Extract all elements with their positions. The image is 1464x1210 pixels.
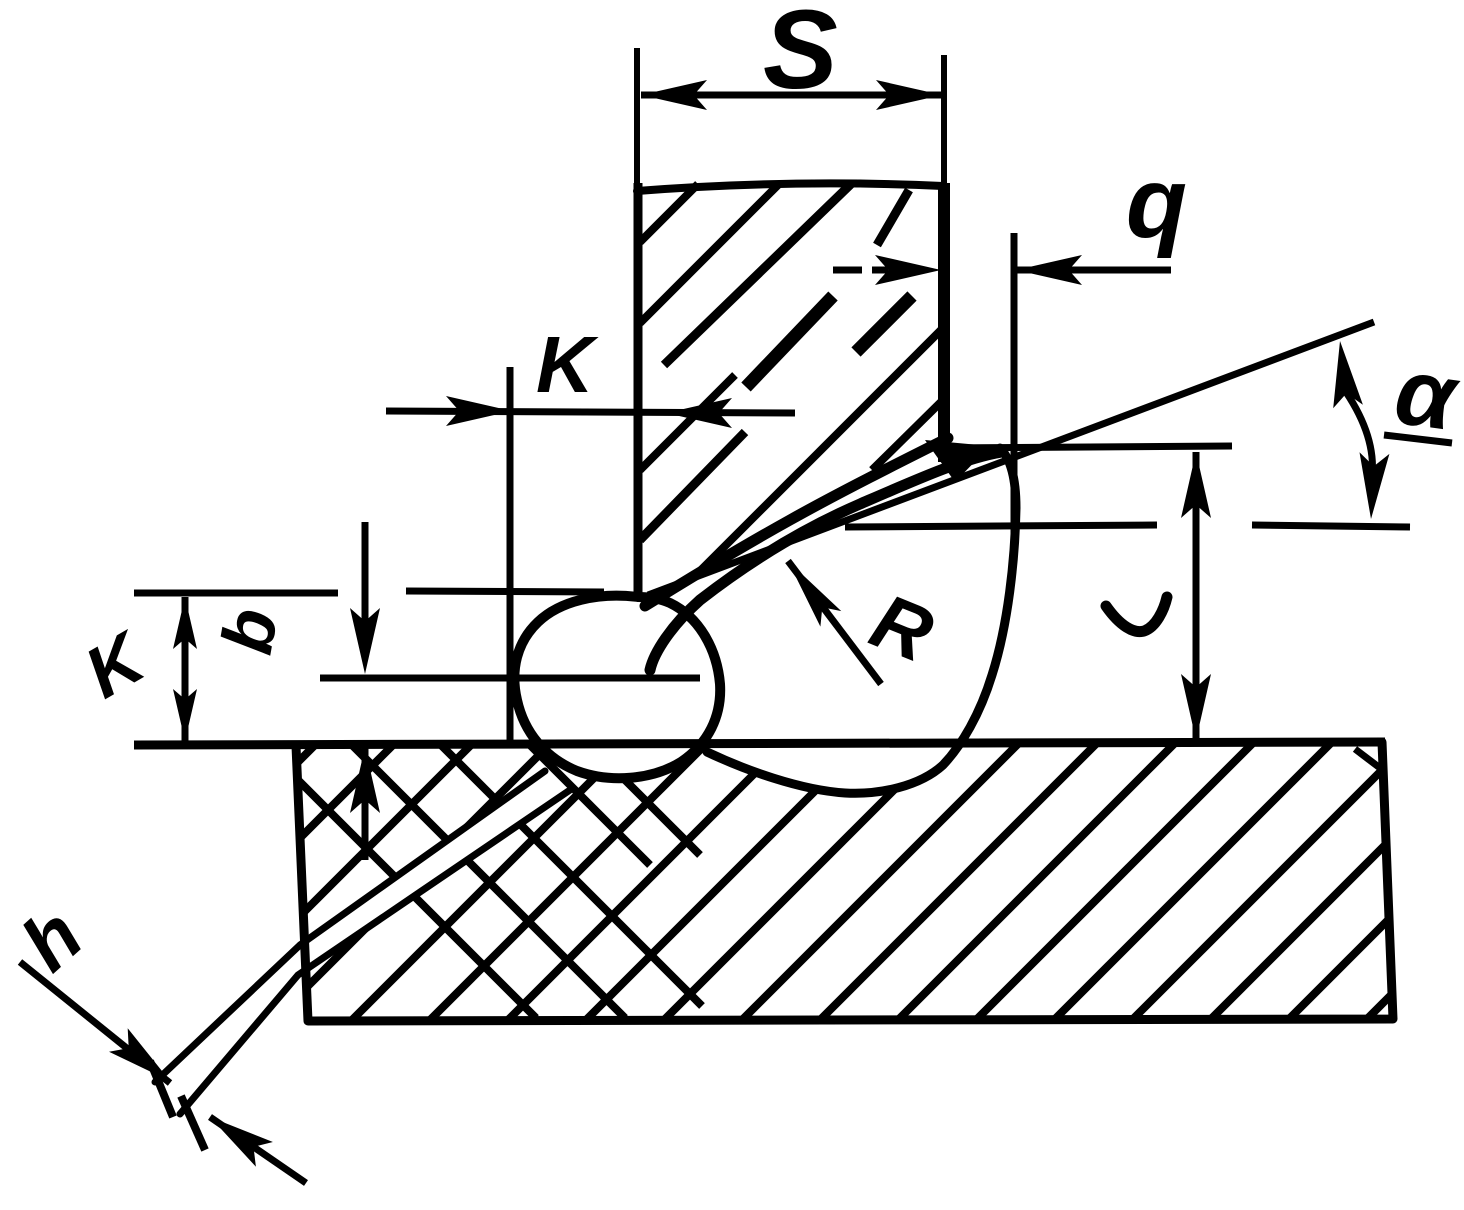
- svg-text:α: α: [1389, 338, 1464, 452]
- bottom plate hatch: [0, 700, 1464, 1060]
- q dimension: [833, 267, 862, 274]
- alpha underline: [1384, 435, 1452, 443]
- big weld bead outline: [707, 448, 1016, 793]
- alpha horizontal reference line: [845, 525, 1157, 527]
- weld root penetration channel: [155, 771, 570, 1114]
- K dimension (horizontal): [386, 411, 795, 413]
- vertical plate left edge: [634, 48, 640, 188]
- svg-text:S: S: [763, 0, 838, 112]
- vertical plate top edge: [637, 183, 943, 191]
- L top reference line y=447: [934, 446, 1232, 448]
- svg-text:K: K: [72, 616, 161, 714]
- K extension line x=510: [507, 367, 514, 745]
- thick hatch segment 2: [856, 296, 912, 352]
- weld face curve A: [645, 438, 948, 606]
- alpha tangent slant line: [648, 322, 1374, 595]
- big weld bead white under-region: [700, 744, 978, 794]
- q extension line: [1011, 233, 1018, 540]
- bottom plate top surface line: [134, 742, 1385, 745]
- weld knot patch: [925, 440, 990, 482]
- K dimension (vertical, left): [182, 597, 189, 741]
- vertical plate hatch: [640, 184, 943, 581]
- L dimension: [1193, 452, 1200, 740]
- svg-text:K: K: [536, 320, 599, 409]
- left weld bead: [514, 596, 720, 779]
- weld face curve B: [650, 452, 1002, 670]
- corner notch stub: [1355, 749, 1380, 768]
- K top reference line y=592: [134, 590, 338, 597]
- S dimension: [641, 92, 942, 99]
- alpha arc arrow: [1346, 392, 1372, 476]
- h tick lines: [150, 1061, 173, 1117]
- svg-text:q: q: [1126, 147, 1187, 259]
- thick hatch segment 1: [746, 296, 833, 387]
- svg-text:R: R: [860, 576, 945, 679]
- R radius arrow: [788, 561, 881, 684]
- L label (rotated script): [1106, 597, 1167, 632]
- b dimension: [362, 522, 369, 655]
- svg-text:h: h: [4, 890, 98, 987]
- svg-text:b: b: [207, 603, 293, 660]
- bottom plate outline: [296, 742, 1393, 1021]
- h dimension: [20, 962, 170, 1083]
- vertical plate right edge: [941, 55, 947, 185]
- vertical plate bottom reference line y=677: [320, 675, 700, 682]
